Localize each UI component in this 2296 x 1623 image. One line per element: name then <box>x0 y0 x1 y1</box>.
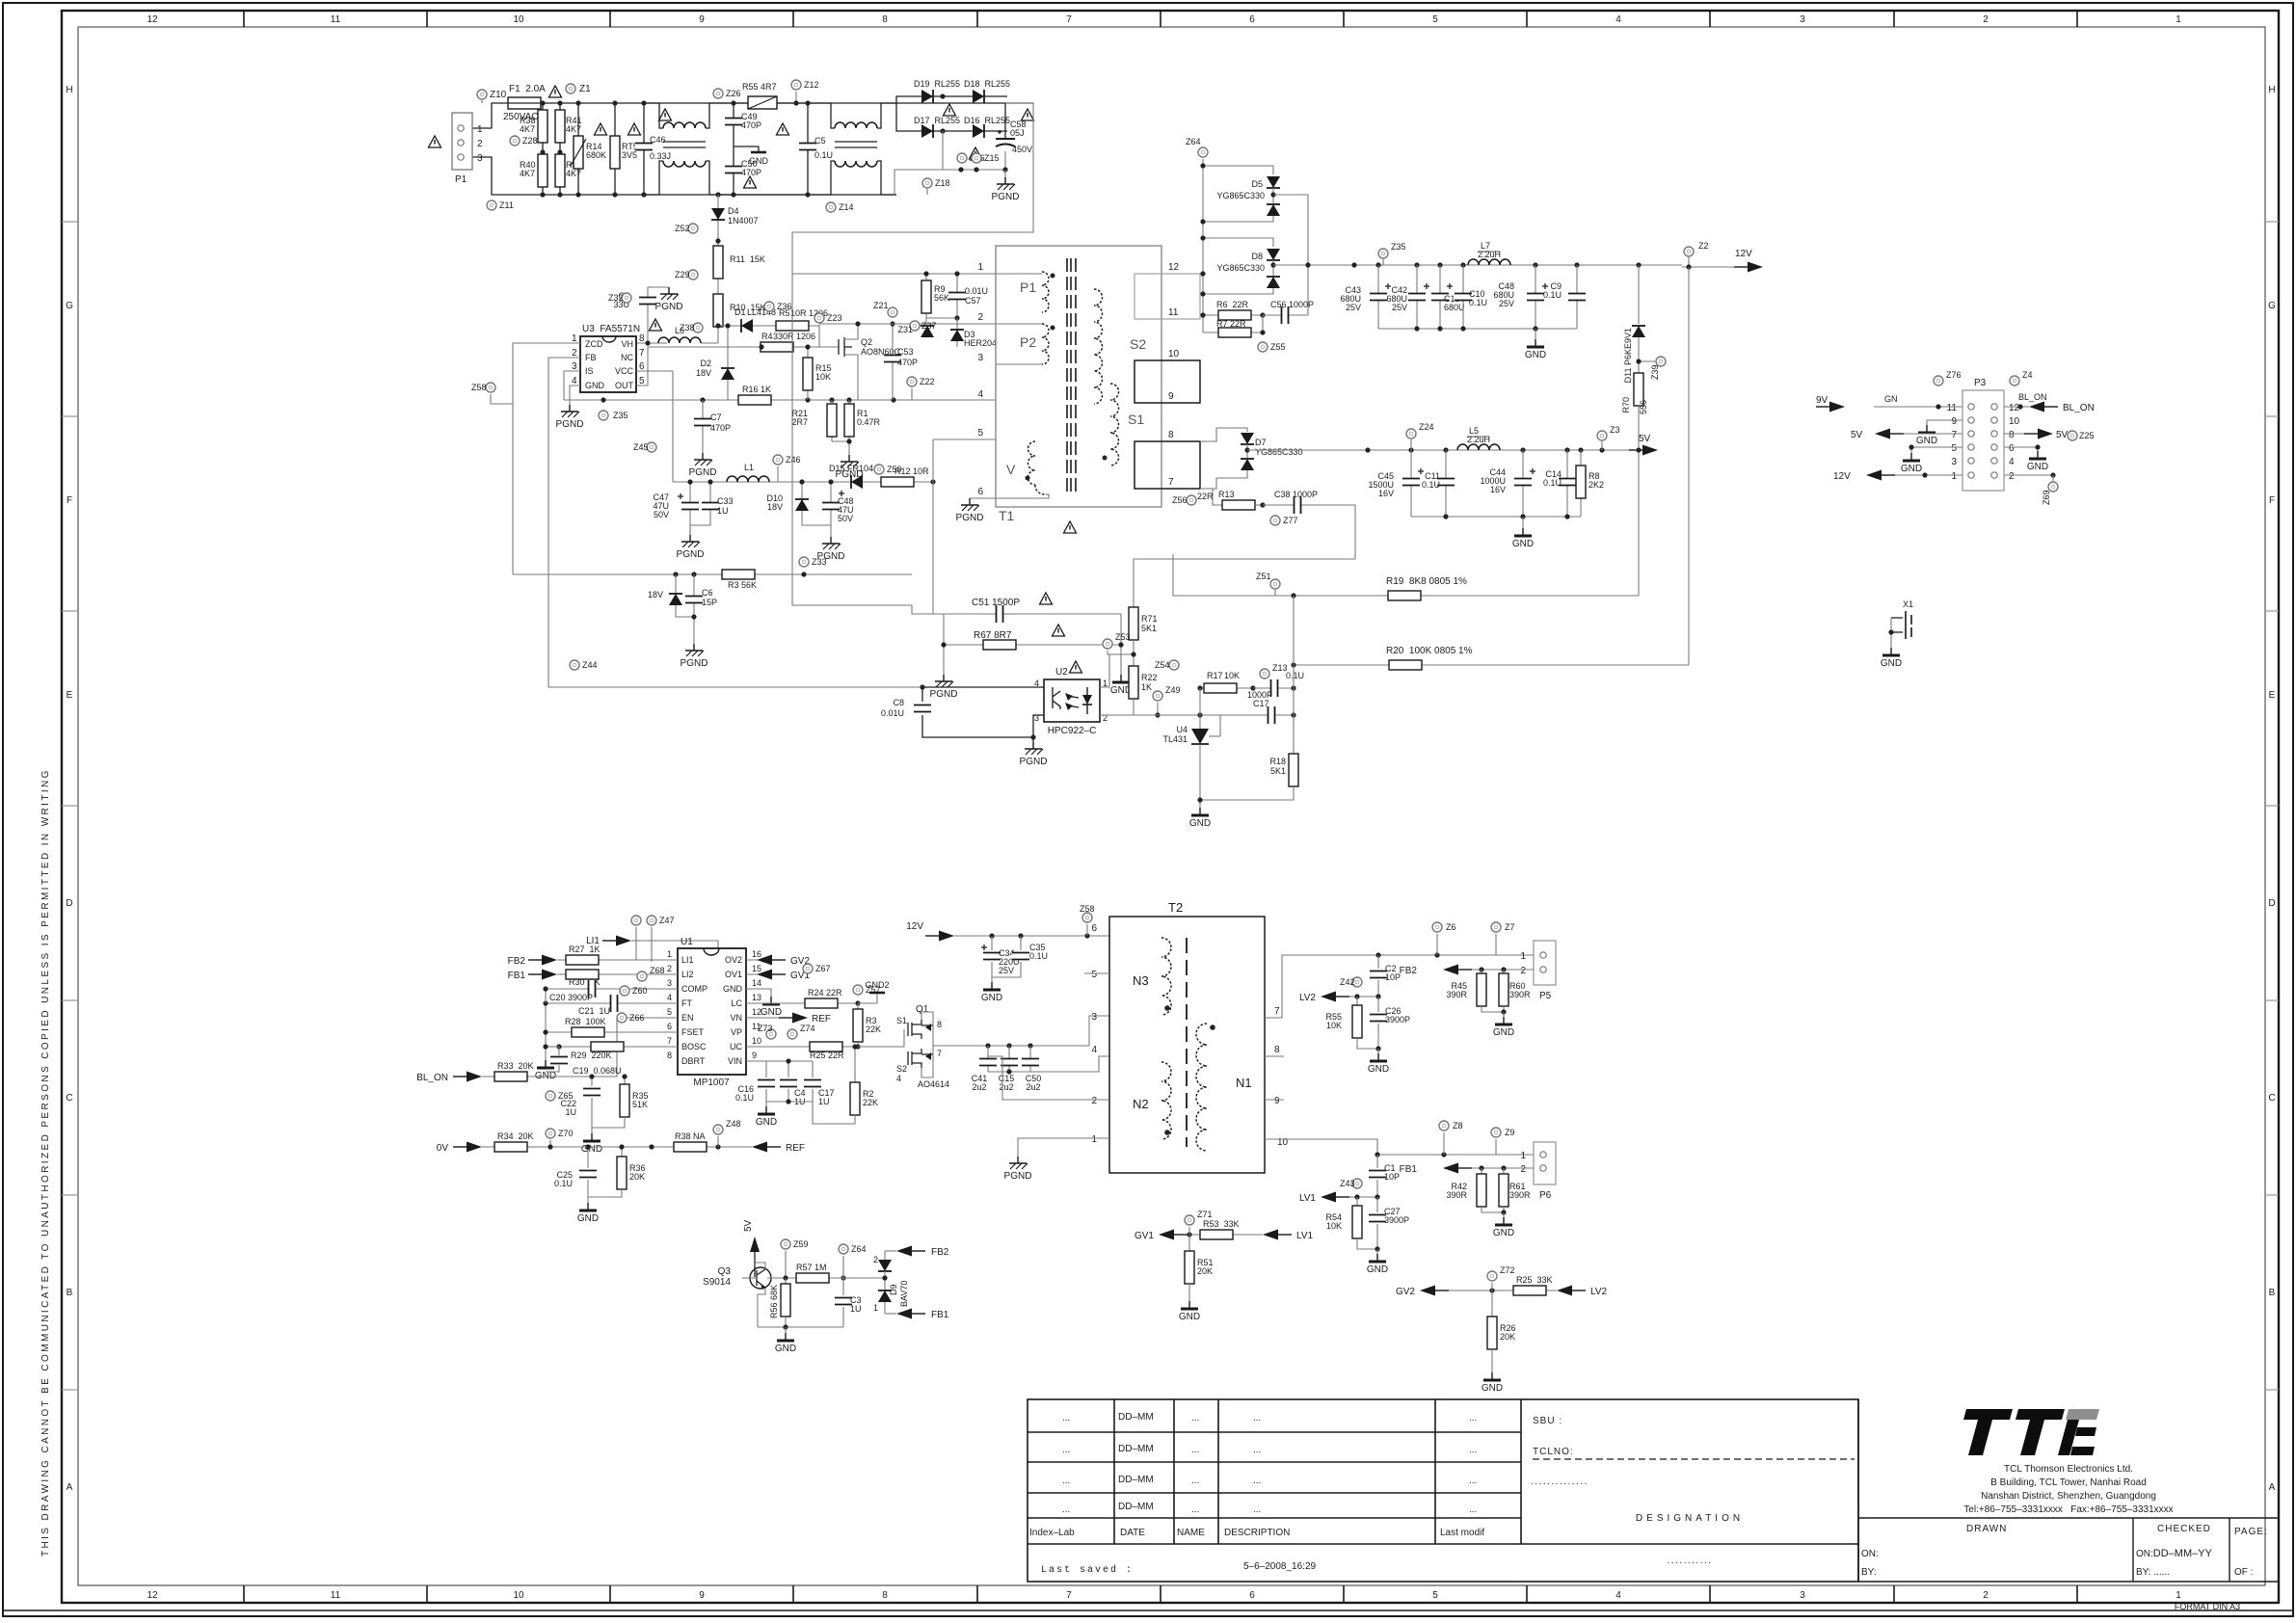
capacitor C17 <box>1247 690 1296 724</box>
warning triangle <box>429 136 441 147</box>
svg-text:C17: C17 <box>1253 699 1269 708</box>
svg-text:7: 7 <box>1168 477 1174 488</box>
svg-text:Z54: Z54 <box>1155 660 1170 670</box>
node Z26 <box>713 89 741 98</box>
resistor R1 sense <box>844 400 881 441</box>
wire AC bottom rail <box>471 157 896 195</box>
column tick marks top <box>244 11 2077 27</box>
svg-text:R57 1M: R57 1M <box>796 1263 827 1272</box>
svg-text:450V: 450V <box>1012 145 1032 154</box>
svg-text:Z59: Z59 <box>793 1239 809 1249</box>
wire fb divider rail <box>1293 596 1295 754</box>
capacitor C57 <box>948 271 988 320</box>
svg-text:R24 22R: R24 22R <box>808 988 842 998</box>
svg-text:1: 1 <box>2176 1590 2181 1601</box>
capacitor C22 <box>560 1074 601 1128</box>
svg-text:D4: D4 <box>728 206 739 216</box>
svg-text:3: 3 <box>1800 1590 1805 1601</box>
ground GND q3 <box>775 1327 796 1354</box>
svg-text:PAGE:: PAGE: <box>2234 1527 2268 1537</box>
port FB2 q3 <box>885 1246 949 1259</box>
node Z65 <box>546 1091 574 1101</box>
node Z51 <box>1256 572 1280 596</box>
ground GND p3 pin5 <box>1901 444 1962 474</box>
svg-text:5V: 5V <box>2056 430 2069 440</box>
svg-text:7: 7 <box>1066 14 1072 25</box>
ground GND r60 <box>1493 1012 1514 1038</box>
connector P1 <box>452 113 483 185</box>
diode D7 pair <box>1200 428 1303 489</box>
port GV2 row <box>1396 1286 1557 1298</box>
svg-text:D1: D1 <box>734 307 746 317</box>
svg-text:Last modif: Last modif <box>1440 1528 1484 1538</box>
svg-text:BY: ......: BY: ...... <box>2136 1567 2170 1578</box>
column numbers top <box>147 14 2181 25</box>
resistor R70 <box>1621 373 1648 596</box>
svg-text:R17: R17 <box>1207 671 1223 680</box>
connector P5 <box>1520 941 1556 1001</box>
capacitor C2 lower <box>1370 955 1401 997</box>
capacitor C3 q3 <box>835 1278 862 1327</box>
node Z2 <box>1684 241 1709 270</box>
svg-text:Z46: Z46 <box>786 455 801 465</box>
svg-text:25V: 25V <box>1346 303 1361 312</box>
svg-text:3: 3 <box>1091 1012 1097 1023</box>
svg-text:P2: P2 <box>1020 334 1036 350</box>
svg-text:10K: 10K <box>815 372 831 382</box>
svg-text:18V: 18V <box>696 368 711 378</box>
svg-text:C: C <box>2268 1093 2275 1104</box>
port BL_ON <box>416 1072 617 1084</box>
optocoupler U2 <box>1034 661 1108 736</box>
svg-text:R25 22R: R25 22R <box>810 1051 844 1060</box>
choke LF1 <box>644 103 725 195</box>
node Z53 <box>1103 632 1136 657</box>
wire VCC rail <box>636 371 673 482</box>
svg-text:5V: 5V <box>1851 430 1863 440</box>
svg-text:...: ... <box>1062 1413 1070 1423</box>
svg-text:Q3: Q3 <box>718 1266 732 1277</box>
capacitor C6 <box>685 574 717 644</box>
wire D5 tap <box>1273 195 1308 315</box>
svg-text:470P: 470P <box>897 358 918 367</box>
svg-text:R11 15K: R11 15K <box>730 254 765 264</box>
node Z25b <box>2068 431 2095 440</box>
node Z35b <box>1378 242 1406 265</box>
svg-text:7: 7 <box>937 1049 942 1058</box>
svg-text:18V: 18V <box>767 502 783 512</box>
node Z58 <box>1080 904 1095 936</box>
svg-text:DBRT: DBRT <box>681 1056 706 1066</box>
svg-text:U2: U2 <box>1055 667 1068 678</box>
svg-text:2u2: 2u2 <box>999 1082 1013 1092</box>
svg-text:F: F <box>2269 495 2275 506</box>
arrow 5V p3out <box>1851 429 1962 441</box>
resistor R27 <box>566 945 601 965</box>
warning triangle <box>595 123 607 135</box>
svg-text:16V: 16V <box>1490 485 1506 494</box>
svg-text:D9: D9 <box>889 1284 898 1295</box>
svg-text:FB1: FB1 <box>931 1310 949 1320</box>
capacitor C49 <box>725 103 761 195</box>
svg-text:GV1: GV1 <box>1135 1231 1154 1241</box>
svg-text:LV2: LV2 <box>1590 1287 1607 1297</box>
node Z46 <box>773 455 801 482</box>
svg-text:FB: FB <box>585 353 597 362</box>
node Z23 <box>814 313 842 347</box>
svg-text:470P: 470P <box>741 120 761 130</box>
wire q3 gnd bus <box>758 1326 843 1328</box>
svg-text:1: 1 <box>977 262 983 273</box>
svg-text:HER204: HER204 <box>964 338 997 348</box>
capacitor C10 <box>1455 265 1487 329</box>
svg-text:T1: T1 <box>999 508 1015 523</box>
resistor R20 <box>1291 267 1689 670</box>
capacitor C50 lower <box>1022 1046 1041 1092</box>
node Z60 <box>620 986 648 996</box>
port LV2 right <box>1557 1286 1607 1298</box>
svg-text:10K: 10K <box>1326 1221 1342 1231</box>
pin stub box 12-11 <box>1135 274 1200 319</box>
fuse F1 <box>503 84 546 122</box>
resistor R4 <box>759 332 839 352</box>
svg-text:GND2: GND2 <box>865 980 889 990</box>
svg-text:ON:: ON: <box>1861 1549 1879 1559</box>
ground GND p3 pin6 <box>2004 444 2048 472</box>
svg-text:2u2: 2u2 <box>1026 1082 1040 1092</box>
capacitor C15 <box>999 1046 1018 1092</box>
svg-text:L1: L1 <box>744 463 754 472</box>
svg-text:B: B <box>67 1288 73 1298</box>
ground bridge capacitor C51 <box>944 598 1121 623</box>
svg-text:F: F <box>67 495 72 506</box>
resistor R8 <box>1576 450 1604 517</box>
svg-text:10: 10 <box>1168 349 1180 359</box>
node Z43 <box>1340 1179 1362 1188</box>
svg-text:BL_ON: BL_ON <box>2018 392 2047 402</box>
wire T2 pin7 out <box>1265 955 1534 1018</box>
svg-text:56K: 56K <box>934 293 949 303</box>
svg-text:11: 11 <box>1168 307 1179 318</box>
capacitor C48 <box>822 479 854 537</box>
svg-text:DESIGNATION: DESIGNATION <box>1636 1513 1744 1524</box>
svg-text:Z49: Z49 <box>1165 685 1181 695</box>
capacitor C53 <box>884 321 918 400</box>
svg-text:R18: R18 <box>1269 757 1286 766</box>
diode D3 HER204 <box>897 318 996 347</box>
ground GND X1 <box>1881 648 1902 669</box>
svg-text:Z69: Z69 <box>2042 490 2051 505</box>
svg-text:C19 0.068U: C19 0.068U <box>573 1066 622 1076</box>
svg-text:2: 2 <box>477 139 483 149</box>
svg-text:TCLNO:: TCLNO: <box>1533 1447 1574 1457</box>
resistor R30 <box>566 970 601 987</box>
svg-text:R12 10R: R12 10R <box>894 466 929 476</box>
svg-text:Z14: Z14 <box>839 202 854 212</box>
svg-text:2: 2 <box>1983 1590 1989 1601</box>
svg-text:N1: N1 <box>1236 1076 1252 1090</box>
ground PGND bridge left <box>930 642 958 700</box>
svg-text:P1: P1 <box>1020 279 1036 295</box>
svg-text:Z39: Z39 <box>1650 364 1660 380</box>
mosfet Q1 AO4614 <box>893 1004 949 1089</box>
inductor L6 <box>637 326 701 343</box>
node Z68 <box>637 966 665 981</box>
row letters left <box>66 85 73 1493</box>
svg-text:...: ... <box>1191 1504 1199 1515</box>
warning triangle <box>659 109 672 120</box>
svg-text:...: ... <box>1191 1445 1199 1455</box>
wire caps bottom <box>988 1056 1109 1072</box>
transistor Q3 S9014 <box>703 1263 771 1327</box>
node Z66 <box>617 1013 645 1023</box>
svg-text:Z77: Z77 <box>1283 516 1298 525</box>
wire q3 base row <box>767 1277 841 1279</box>
svg-text:2: 2 <box>977 312 983 323</box>
mosfet Q2 <box>839 324 901 400</box>
node Z32 <box>608 293 631 303</box>
svg-text:6: 6 <box>1249 1590 1255 1601</box>
svg-text:6: 6 <box>1091 923 1097 934</box>
svg-text:5V: 5V <box>1639 434 1651 444</box>
svg-text:1: 1 <box>1951 471 1957 482</box>
svg-text:Z11: Z11 <box>499 200 514 210</box>
capacitor C7 <box>694 400 731 453</box>
capacitor C8 <box>881 687 1044 737</box>
svg-text:Nanshan District, Shenzhen, Gu: Nanshan District, Shenzhen, Guangdong <box>1981 1491 2156 1502</box>
port GV2 out <box>746 955 810 968</box>
svg-text:R7 22R: R7 22R <box>1216 319 1246 329</box>
ground GND u1pin14 <box>746 989 782 1018</box>
svg-text:0.1U: 0.1U <box>735 1093 754 1103</box>
clamp diode D11 <box>1623 265 1645 383</box>
svg-text:LC: LC <box>731 998 742 1008</box>
svg-text:7: 7 <box>1951 430 1957 440</box>
warning triangle <box>650 319 662 331</box>
svg-text:BOSC: BOSC <box>681 1042 707 1051</box>
svg-text:R27 1K: R27 1K <box>569 945 601 954</box>
wire IS rail <box>564 399 996 401</box>
svg-text:Z2: Z2 <box>1698 241 1709 251</box>
svg-text:U4: U4 <box>1176 725 1188 734</box>
node Z71 <box>1185 1210 1213 1235</box>
svg-text:D8: D8 <box>1251 252 1263 261</box>
warning triangle <box>1040 593 1053 604</box>
svg-text:2: 2 <box>2009 471 2015 482</box>
svg-text:16: 16 <box>752 949 761 959</box>
ground GND filter <box>1525 329 1546 360</box>
node Z6 <box>1432 922 1456 955</box>
node Z4 <box>2010 370 2033 386</box>
svg-text:...: ... <box>1469 1445 1477 1455</box>
svg-text:VIN: VIN <box>728 1056 742 1066</box>
capacitor C18 <box>1431 265 1465 329</box>
T2 winding N1 <box>1196 1024 1252 1151</box>
svg-text:BL_ON: BL_ON <box>2063 403 2095 413</box>
ground GND filter2 <box>1512 517 1534 549</box>
svg-text:Z12: Z12 <box>804 80 819 90</box>
arrow 5V up q3 <box>743 1219 760 1277</box>
node Z39 <box>1636 357 1666 380</box>
revision table header row <box>1029 1528 1484 1538</box>
ground GND p3 pin9 <box>1916 420 1962 446</box>
resistor R29 <box>543 1042 678 1060</box>
capacitor C35 <box>992 936 1048 977</box>
choke LF2 <box>824 103 896 195</box>
svg-text:DD–MM: DD–MM <box>1118 1475 1154 1485</box>
title block outline <box>1028 1399 2279 1582</box>
svg-text:Z18: Z18 <box>935 178 950 188</box>
svg-text:3: 3 <box>477 153 483 164</box>
resistor R55 lower <box>1325 997 1378 1049</box>
svg-text:7: 7 <box>639 348 645 359</box>
svg-text:FSET: FSET <box>681 1027 705 1037</box>
node Z49 <box>1153 685 1181 718</box>
svg-text:Z9: Z9 <box>1505 1128 1515 1137</box>
diode D4 startup <box>711 195 759 241</box>
svg-text:Z22: Z22 <box>920 377 935 386</box>
svg-text:BAV70: BAV70 <box>899 1281 909 1307</box>
svg-text:FT: FT <box>681 998 692 1008</box>
svg-text:Z76: Z76 <box>1946 370 1962 380</box>
svg-text:Z66: Z66 <box>629 1013 645 1023</box>
node Z29 <box>675 270 698 279</box>
port REF out <box>746 1013 831 1025</box>
wire 12V rail <box>1273 264 1682 266</box>
resistor R41 <box>555 103 582 195</box>
svg-text:R20 100K 0805 1%: R20 100K 0805 1% <box>1386 646 1473 656</box>
svg-text:LV1: LV1 <box>1299 1193 1316 1204</box>
arrow 12V p3 <box>1833 470 1962 483</box>
wire FB to opto <box>548 665 922 687</box>
svg-text:D16 RL255: D16 RL255 <box>964 116 1010 125</box>
svg-text:5V: 5V <box>743 1219 754 1232</box>
warning triangle <box>1064 521 1077 533</box>
svg-text:25V: 25V <box>1499 299 1514 308</box>
svg-text:D15 FR104: D15 FR104 <box>829 464 873 473</box>
ground PGND opto <box>1020 715 1048 767</box>
diode D19 <box>911 79 960 103</box>
diode D5 pair <box>1200 163 1280 224</box>
wire VH feed <box>701 342 718 344</box>
port LV1 out <box>1299 1192 1380 1205</box>
svg-text:Z64: Z64 <box>1186 137 1201 146</box>
svg-text:Z55: Z55 <box>1270 342 1286 352</box>
svg-text:50V: 50V <box>838 514 853 523</box>
warning triangle <box>744 176 757 188</box>
node Z13 <box>1260 663 1288 678</box>
svg-text:2: 2 <box>873 1255 878 1264</box>
svg-text:LV2: LV2 <box>1299 993 1316 1003</box>
svg-text:22K: 22K <box>866 1024 881 1034</box>
diode D3 <box>950 324 997 348</box>
svg-text:Z29: Z29 <box>675 270 690 279</box>
wire OUT pin <box>636 347 761 386</box>
node Z22 <box>907 377 935 400</box>
ground PGND pin6 <box>956 498 996 523</box>
svg-text:5K1: 5K1 <box>1270 766 1286 776</box>
svg-text:C6: C6 <box>702 588 713 598</box>
inductor L7 <box>1468 241 1510 265</box>
svg-text:R5: R5 <box>779 308 790 318</box>
svg-text:R70: R70 <box>1621 397 1631 413</box>
resistor R53 <box>1200 1219 1240 1239</box>
svg-text:...: ... <box>1191 1413 1199 1423</box>
svg-text:4K7: 4K7 <box>520 124 535 134</box>
svg-text:R71: R71 <box>1141 614 1158 624</box>
svg-text:1K: 1K <box>1141 682 1152 692</box>
node Z45 <box>633 442 656 452</box>
svg-text:556: 556 <box>1639 400 1648 414</box>
node Z37 <box>910 321 937 331</box>
capacitor C20 <box>546 980 678 1002</box>
resistor R15 <box>803 344 832 400</box>
diode D8 pair <box>1200 235 1280 296</box>
resistor R24 <box>746 988 861 1008</box>
svg-text:BY:: BY: <box>1861 1567 1877 1578</box>
node Z28 <box>510 136 538 146</box>
svg-text:R6 22R: R6 22R <box>1216 300 1249 309</box>
resistor R39 <box>555 154 582 187</box>
ground PGND C47 <box>677 535 705 560</box>
svg-text:HPC922–C: HPC922–C <box>1048 726 1097 736</box>
svg-text:Z35: Z35 <box>1391 242 1406 252</box>
svg-text:D: D <box>2268 898 2275 909</box>
svg-text:Q1: Q1 <box>916 1004 929 1015</box>
diode D18 <box>959 79 1010 103</box>
T1 core <box>1067 258 1076 492</box>
svg-text:THIS DRAWING CANNOT BE COMMUNI: THIS DRAWING CANNOT BE COMMUNICATED TO U… <box>40 768 51 1556</box>
ground PGND sense <box>832 439 863 480</box>
svg-text:0.1U: 0.1U <box>1029 951 1048 961</box>
warning triangle <box>1022 109 1034 120</box>
inductor L1 <box>727 463 769 482</box>
svg-text:...: ... <box>1469 1413 1477 1423</box>
resistor R19 <box>1275 576 1639 600</box>
svg-text:R28 100K: R28 100K <box>565 1017 606 1026</box>
svg-text:DD–MM: DD–MM <box>1118 1444 1154 1454</box>
svg-text:5: 5 <box>667 1007 672 1017</box>
T1 pin numbers left <box>977 262 983 497</box>
resistor R13 pin7 <box>1197 489 1266 510</box>
svg-text:Z71: Z71 <box>1197 1210 1213 1219</box>
svg-text:Tel:+86–755–3331xxxx Fax:+86: Tel:+86–755–3331xxxx Fax:+86–755–3331xxx… <box>1963 1504 2173 1515</box>
svg-text:YG865C330: YG865C330 <box>1216 191 1265 200</box>
svg-text:10: 10 <box>752 1036 761 1046</box>
T1 secondary S1 winding <box>1103 384 1145 466</box>
svg-text:680U: 680U <box>1444 303 1465 312</box>
svg-text:8: 8 <box>667 1051 672 1060</box>
svg-text:7: 7 <box>1274 1006 1280 1017</box>
svg-text:51K: 51K <box>632 1100 648 1109</box>
svg-text:2: 2 <box>1091 1096 1097 1106</box>
svg-text:Z24: Z24 <box>1419 422 1434 432</box>
svg-text:...: ... <box>1062 1504 1070 1515</box>
capacitor C27 <box>1369 1197 1409 1252</box>
wire AC top rail <box>471 103 1033 128</box>
node Z73 <box>758 1024 776 1039</box>
warning triangles bridge <box>944 104 956 116</box>
ground PGND C6 <box>681 644 708 669</box>
transformer T2 box <box>1109 900 1265 1173</box>
node Z77 <box>1270 516 1298 525</box>
capacitor C21 <box>543 995 678 1060</box>
svg-text:D5: D5 <box>1251 179 1263 189</box>
svg-text:Z52: Z52 <box>675 224 690 233</box>
svg-text:9: 9 <box>752 1051 757 1060</box>
svg-text:FB2: FB2 <box>1400 966 1418 976</box>
capacitor C9 <box>1543 265 1586 329</box>
